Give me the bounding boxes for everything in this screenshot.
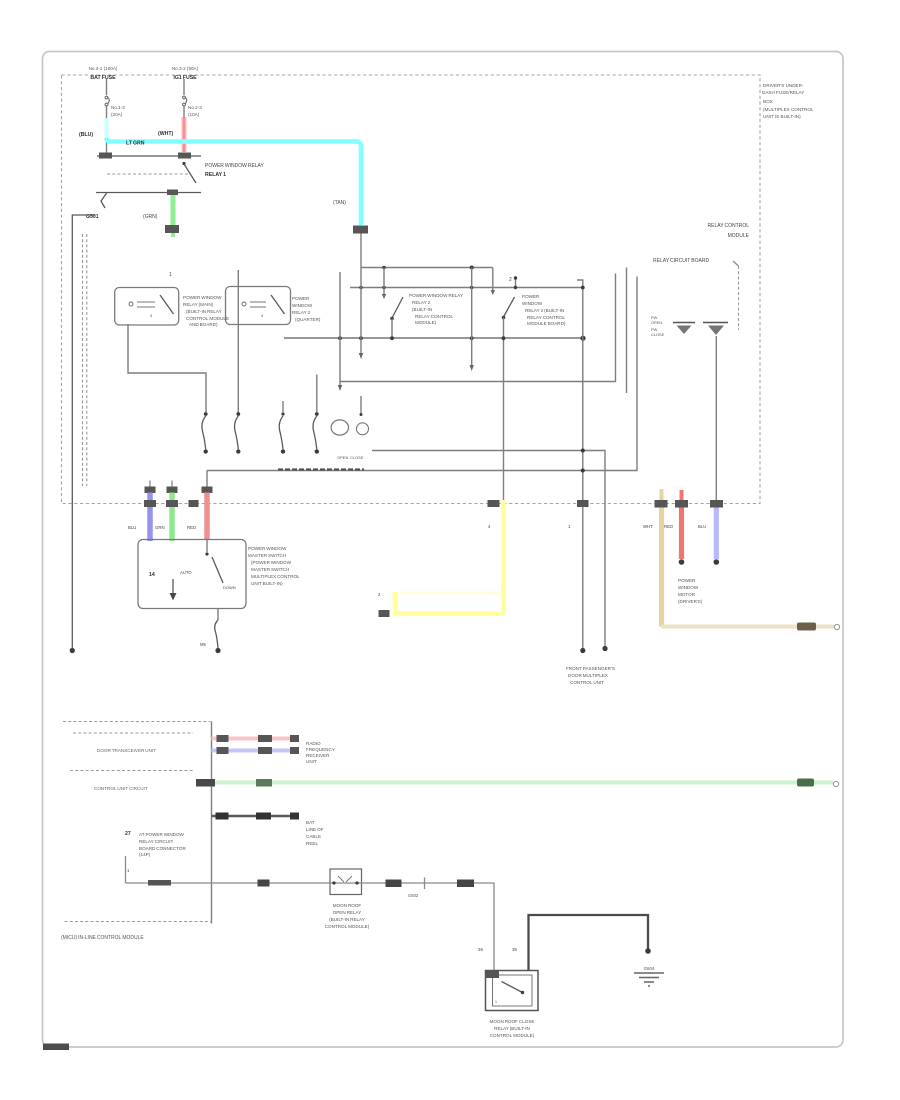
wire line 883 continues	[362, 883, 495, 972]
svg-text:BLU: BLU	[128, 525, 136, 530]
terminal dot trunk	[580, 648, 585, 653]
junction blob dashed line at yellow	[488, 500, 500, 507]
junction blob dashed line left of red	[189, 500, 199, 507]
svg-text:CLOSE: CLOSE	[651, 332, 665, 337]
blob on green line mid	[256, 779, 272, 787]
label: power window relay 1	[409, 293, 463, 325]
contact dot blade2	[502, 316, 506, 320]
svg-text:1: 1	[495, 1000, 497, 1004]
power window master switch box	[138, 540, 246, 609]
wire violet drop	[714, 508, 719, 560]
wire: horizontal net at 267.5	[361, 267, 493, 269]
svg-text:LT GRN: LT GRN	[126, 141, 145, 147]
svg-text:(20A): (20A)	[111, 112, 123, 117]
wire pale blue line	[212, 749, 299, 753]
dark segment on tan wire	[797, 623, 816, 631]
svg-text:MASTER SWITCH: MASTER SWITCH	[248, 553, 286, 558]
junction blob dashed line at green	[166, 500, 178, 507]
wire: corner drop x492.8	[492, 268, 494, 292]
svg-text:CONTROL MODULE): CONTROL MODULE)	[490, 1033, 535, 1038]
pin dot	[514, 276, 517, 279]
svg-text:MODULE: MODULE	[728, 233, 750, 239]
terminal dot crimson	[679, 559, 685, 565]
connector cap red	[202, 487, 213, 494]
svg-text:RELAY (MAIN): RELAY (MAIN)	[183, 302, 214, 307]
svg-text:POWER WINDOW RELAY: POWER WINDOW RELAY	[409, 293, 463, 298]
svg-text:BAT: BAT	[306, 820, 315, 825]
svg-text:BOARD CONNECTOR: BOARD CONNECTOR	[139, 846, 186, 851]
svg-text:MOON ROOF CLOSE: MOON ROOF CLOSE	[490, 1019, 535, 1024]
svg-text:POWER WINDOW RELAY: POWER WINDOW RELAY	[205, 163, 265, 169]
wire: blade1 common to bus	[391, 319, 393, 339]
svg-text:POWER: POWER	[292, 296, 310, 301]
junction dot	[470, 266, 474, 270]
wire: fuse1 drop	[106, 79, 108, 95]
wire: net 470.5 to relay board	[207, 277, 637, 471]
svg-text:UNIT BUILT-IN): UNIT BUILT-IN)	[251, 581, 283, 586]
connector cap at cyan end	[353, 226, 368, 234]
svg-text:CABLE: CABLE	[306, 834, 321, 839]
junction bar on line A at fuse1	[99, 153, 112, 159]
svg-text:CONTROL UNIT CIRCUIT: CONTROL UNIT CIRCUIT	[94, 786, 148, 791]
junction blob dashed line at blue	[144, 500, 156, 507]
terminal dot violet	[714, 559, 720, 565]
svg-text:POWER WINDOW: POWER WINDOW	[183, 295, 222, 300]
terminal dot	[602, 646, 607, 651]
svg-text:(MICU) IN-LINE CONTROL MODULE: (MICU) IN-LINE CONTROL MODULE	[61, 935, 144, 941]
svg-text:MULTIPLEX CONTROL: MULTIPLEX CONTROL	[251, 574, 300, 579]
motor contact circle column 5	[331, 420, 348, 435]
dashed enclosure: driver's under-dash fuse/relay box	[62, 75, 761, 504]
svg-text:(14P): (14P)	[139, 852, 151, 857]
wire yellow drop	[501, 500, 506, 614]
svg-text:G502: G502	[408, 893, 419, 898]
svg-text:RELAY CIRCUIT BOARD: RELAY CIRCUIT BOARD	[653, 258, 709, 264]
svg-text:POWER: POWER	[678, 578, 696, 583]
relay box K1 outline	[115, 288, 179, 326]
svg-text:No.2-3: No.2-3	[188, 105, 202, 110]
connector stub green	[171, 481, 173, 488]
open circle terminal tan	[834, 624, 839, 629]
svg-text:RELAY 2: RELAY 2	[292, 310, 311, 315]
svg-text:UNIT: UNIT	[306, 759, 317, 764]
relay K2 internals	[242, 295, 285, 318]
fuse F1 feed label	[89, 66, 118, 81]
wire: red segment from fuse2	[183, 106, 185, 117]
wire green drop to master switch	[169, 493, 175, 542]
svg-text:(BLU): (BLU)	[79, 132, 93, 138]
label: radio frequency receiver	[306, 741, 335, 764]
svg-text:REEL: REEL	[306, 841, 318, 846]
svg-text:OPEN CLOSE: OPEN CLOSE	[337, 455, 364, 460]
svg-text:RED: RED	[664, 524, 673, 529]
wire stub note to line	[125, 856, 127, 883]
svg-text:RADIO: RADIO	[306, 741, 321, 746]
junction on line C at green	[167, 190, 178, 196]
wire tan drop	[659, 508, 664, 627]
terminal dot left run	[70, 648, 75, 653]
junction dot	[359, 286, 362, 289]
wire dark line 816	[212, 815, 299, 818]
svg-text:No.1-3: No.1-3	[111, 105, 125, 110]
dash-dot boundary in-line module	[65, 921, 212, 923]
ground pigtail G501	[86, 193, 107, 221]
tick G502	[408, 878, 425, 899]
svg-text:(10A): (10A)	[188, 112, 200, 117]
junction blob dashed at crimson	[675, 500, 688, 508]
connector cap blue	[145, 487, 156, 494]
label PW open	[651, 315, 665, 337]
dashed boundary relay circuit board	[738, 266, 740, 330]
svg-text:RELAY 1: RELAY 1	[205, 172, 226, 178]
svg-text:4: 4	[261, 314, 263, 318]
svg-text:GRN: GRN	[155, 525, 165, 530]
svg-text:RELAY 2 (BUILT-IN: RELAY 2 (BUILT-IN	[525, 308, 564, 313]
switch blade relay2	[504, 297, 515, 317]
label: moon roof open relay	[325, 903, 370, 929]
page number label	[43, 1044, 69, 1051]
svg-text:WINDOW: WINDOW	[678, 585, 699, 590]
svg-text:(DRIVER'S): (DRIVER'S)	[678, 599, 703, 604]
svg-text:RELAY CONTROL: RELAY CONTROL	[708, 223, 750, 229]
master switch internals	[149, 540, 236, 601]
junction bar on line A at fuse2	[178, 153, 191, 159]
svg-text:IG1 FUSE: IG1 FUSE	[173, 75, 197, 81]
wire: through relay K2	[237, 270, 239, 413]
svg-text:MASTER SWITCH: MASTER SWITCH	[251, 567, 289, 572]
svg-text:UNIT IS BUILT-IN): UNIT IS BUILT-IN)	[763, 114, 801, 119]
wire yellow top faint	[397, 592, 503, 594]
switch contact column 2	[235, 412, 241, 454]
wire: fuse1 to junction	[106, 106, 108, 156]
svg-text:(QUARTER): (QUARTER)	[295, 317, 321, 322]
svg-text:4: 4	[150, 314, 152, 318]
label: moon roof close relay	[490, 1019, 535, 1038]
wire: drop x384	[383, 268, 385, 296]
wire: horizontal net at 287.5	[350, 287, 583, 289]
label: relay circuit board	[653, 258, 739, 266]
label: fuse1 value	[111, 105, 125, 117]
svg-text:DASH FUSE/RELAY: DASH FUSE/RELAY	[762, 90, 804, 95]
svg-text:FRONT PASSENGER'S: FRONT PASSENGER'S	[566, 666, 615, 671]
blobs on dark line	[216, 813, 300, 820]
svg-text:FREQUENCY: FREQUENCY	[306, 747, 335, 752]
wire: cyan branch riser	[105, 118, 109, 138]
svg-text:MOTOR: MOTOR	[678, 592, 696, 597]
svg-text:2: 2	[509, 277, 512, 283]
svg-text:27: 27	[125, 831, 131, 837]
dashed pair vertical left	[82, 234, 84, 486]
label: power window relay 2 box	[292, 296, 321, 322]
label: relay 1	[205, 163, 265, 178]
blobs on blue line	[217, 747, 300, 754]
junction dot	[382, 286, 385, 289]
svg-text:RELAY CONTROL: RELAY CONTROL	[527, 315, 566, 320]
moon roof close relay box	[486, 970, 539, 1011]
pin dot	[514, 286, 517, 289]
wire long line 883	[126, 882, 331, 884]
svg-text:CONTROL UNIT: CONTROL UNIT	[570, 680, 604, 685]
label right of dark line	[306, 820, 324, 846]
svg-text:G604: G604	[644, 966, 655, 971]
svg-text:RED: RED	[187, 525, 196, 530]
svg-text:LINE OF: LINE OF	[306, 827, 324, 832]
svg-text:RELAY CIRCUIT: RELAY CIRCUIT	[139, 839, 173, 844]
svg-text:AUTO: AUTO	[180, 570, 192, 575]
switch pigtail	[215, 620, 218, 648]
switch contact column 4	[313, 375, 319, 454]
blob on green line right	[797, 779, 814, 787]
wire thick L to ground	[529, 915, 649, 971]
relay coil symbol A	[673, 323, 695, 335]
arrowhead x384	[382, 294, 386, 299]
svg-text:RELAY CONTROL: RELAY CONTROL	[415, 314, 454, 319]
svg-text:36: 36	[478, 947, 483, 952]
svg-text:DOOR MULTIPLEX: DOOR MULTIPLEX	[568, 673, 608, 678]
svg-text:POWER WINDOW: POWER WINDOW	[248, 546, 287, 551]
wire: multiplex spine	[211, 722, 213, 924]
label: power window relay 2	[522, 294, 566, 326]
svg-text:(POWER WINDOW: (POWER WINDOW	[251, 560, 292, 565]
blob on line 883 right	[457, 880, 474, 888]
svg-text:AT POWER WINDOW: AT POWER WINDOW	[139, 832, 185, 837]
svg-text:(BUILT-IN RELAY: (BUILT-IN RELAY	[329, 917, 365, 922]
fuse F1 element	[105, 96, 109, 106]
junction dot trunk at 450.5	[581, 449, 585, 453]
relay coil symbol B	[703, 323, 728, 336]
arrowhead x492.8	[491, 290, 495, 295]
wire: net 381.5 to relay board	[340, 274, 616, 382]
svg-text:(GRN): (GRN)	[143, 214, 158, 220]
svg-text:(TAN): (TAN)	[333, 200, 346, 206]
wire crimson drop	[679, 508, 684, 560]
switch contact column 1	[128, 324, 208, 454]
wire red feed from net 470.5	[206, 471, 208, 488]
junction blob green line left	[196, 779, 215, 787]
label: driver's under-dash fuse/relay box	[762, 83, 814, 119]
dashed pair vertical left 2	[86, 234, 88, 486]
svg-text:CONTROL MODULE): CONTROL MODULE)	[325, 924, 370, 929]
motor contact circle column 6	[357, 396, 369, 435]
blob on line 883	[386, 880, 402, 888]
wire: main trunk x582.8	[577, 280, 583, 650]
label: front passenger's door multiplex control unit	[566, 666, 615, 685]
svg-text:MOON ROOF: MOON ROOF	[333, 903, 362, 908]
wire: fuse2 drop	[183, 79, 185, 95]
dash-dot boundary control circuit	[70, 770, 193, 772]
svg-text:RECEIVER: RECEIVER	[306, 753, 330, 758]
switch blade power window relay contact	[182, 162, 185, 165]
fuse F2 feed label	[172, 66, 199, 81]
wire: left long run to arrow	[72, 215, 95, 650]
junction dot	[382, 266, 385, 269]
terminal dot ground wire	[645, 948, 651, 954]
wire crimson stub above	[680, 490, 684, 500]
junction blob dashed at 605? none; at tan	[655, 500, 668, 508]
blob on line 883 at spine	[258, 880, 270, 887]
svg-text:OPEN RELAY: OPEN RELAY	[333, 910, 362, 915]
wire: cyan bus to moon roof	[107, 138, 362, 225]
connector stub blue	[149, 481, 151, 488]
junction dot trunk at 287.5	[581, 286, 585, 290]
junction blob dashed at trunk 582.8	[577, 500, 589, 507]
wire blue drop to master switch	[147, 493, 153, 542]
junction dot	[359, 336, 363, 340]
svg-text:(BUILT-IN RELAY: (BUILT-IN RELAY	[186, 309, 222, 314]
svg-text:MODULE): MODULE)	[415, 320, 437, 325]
svg-text:DOOR TRANSCEIVER UNIT: DOOR TRANSCEIVER UNIT	[97, 748, 156, 753]
svg-text:MODULE BOARD): MODULE BOARD)	[527, 321, 566, 326]
wire pink RF line	[212, 737, 299, 741]
svg-text:OPEN: OPEN	[651, 320, 662, 325]
wire: blade2 common long drop	[503, 318, 505, 501]
relay box K2 outline	[226, 287, 291, 325]
svg-text:No.3-2 (50A): No.3-2 (50A)	[172, 66, 199, 71]
svg-text:WHT: WHT	[643, 524, 653, 529]
wire: horizontal line C	[96, 192, 201, 194]
svg-text:(BUILT-IN: (BUILT-IN	[412, 307, 432, 312]
label: relay control module	[708, 223, 750, 239]
svg-text:1: 1	[169, 272, 172, 278]
wire: col6 riser	[360, 268, 362, 355]
wire tan stub above	[660, 489, 664, 500]
junction dot	[470, 286, 473, 289]
svg-text:DRIVER'S UNDER-: DRIVER'S UNDER-	[763, 83, 804, 88]
wire: net 450.5	[372, 451, 605, 649]
svg-text:14: 14	[149, 572, 155, 578]
dark segment on line 883	[148, 880, 171, 886]
wire: col5 riser	[339, 272, 341, 386]
arrowhead col6	[359, 353, 363, 359]
junction blob dashed at violet	[710, 500, 723, 508]
svg-text:POWER: POWER	[522, 294, 540, 299]
svg-text:CONTROL MODULE: CONTROL MODULE	[186, 316, 229, 321]
junction dot	[502, 336, 506, 340]
wire yellow horizontal	[395, 592, 504, 614]
label: note 27 block	[125, 831, 186, 857]
svg-text:M5: M5	[200, 642, 206, 647]
moon roof open relay box	[330, 869, 362, 895]
svg-text:BOX: BOX	[763, 99, 773, 104]
ground G604 symbol	[634, 966, 664, 986]
label: fuse2 value	[188, 105, 202, 117]
junction dot	[338, 336, 342, 340]
terminal dot M5	[215, 648, 220, 653]
wire red drop to master switch	[204, 493, 210, 541]
arrowhead col5	[338, 385, 342, 391]
svg-text:BAT FUSE: BAT FUSE	[90, 75, 116, 81]
wire: drop x471.7	[471, 268, 473, 367]
open circle terminal green	[833, 781, 838, 786]
fuse F2 element	[183, 96, 187, 106]
svg-text:No.3-1 (100A): No.3-1 (100A)	[89, 66, 118, 71]
label: power window master relay	[183, 295, 229, 327]
wire: green drop	[171, 195, 176, 228]
green wire tail	[171, 233, 175, 237]
svg-text:RELAY (BUILT-IN: RELAY (BUILT-IN	[494, 1026, 530, 1031]
junction dot blade1 common at bus	[390, 336, 394, 340]
junction dot end of bus	[580, 336, 585, 341]
svg-text:(WHT): (WHT)	[158, 131, 174, 137]
connector cap on green wire	[165, 225, 179, 233]
wire: relay board pin riser x626.5	[626, 268, 628, 394]
blobs on pink line	[217, 735, 300, 742]
mechanical link hatch on net 470.5	[278, 468, 364, 470]
switch contact column 3	[279, 401, 285, 454]
connector marks yellow left	[378, 592, 390, 617]
arrowhead x471.7	[470, 365, 474, 371]
dash-dot boundary transceiver	[73, 732, 193, 734]
label: power window motor block	[678, 578, 703, 604]
junction dot	[470, 336, 474, 340]
wire tan horizontal to frame	[662, 625, 835, 629]
svg-text:BLU: BLU	[698, 524, 706, 529]
svg-text:35: 35	[512, 947, 517, 952]
pin stub x515.5	[515, 278, 517, 288]
wire: coil B lead down	[715, 336, 717, 500]
wire from master switch down	[217, 609, 219, 621]
wire: horizontal line A	[97, 155, 201, 157]
wire pale green long line	[215, 781, 833, 785]
wire: bus 338.5	[284, 337, 583, 339]
junction dot trunk at 470.5	[581, 469, 585, 473]
label: power window master switch	[248, 546, 300, 586]
dashed linkage line B	[107, 173, 190, 175]
relay K1 internals	[129, 295, 174, 318]
svg-text:WINDOW: WINDOW	[522, 301, 543, 306]
svg-text:WINDOW: WINDOW	[292, 303, 313, 308]
svg-text:(MULTIPLEX CONTROL: (MULTIPLEX CONTROL	[763, 107, 814, 112]
switch blade relay1	[392, 297, 403, 318]
svg-text:DOWN: DOWN	[223, 585, 236, 590]
svg-text:RELAY 2: RELAY 2	[412, 300, 431, 305]
svg-text:AND BOARD): AND BOARD)	[189, 322, 218, 327]
contact dot blade1	[390, 317, 394, 321]
connector cap green	[167, 487, 178, 494]
dash-dot boundary multiplex top	[63, 721, 211, 723]
wire: gray from cyan cap down	[360, 234, 362, 268]
